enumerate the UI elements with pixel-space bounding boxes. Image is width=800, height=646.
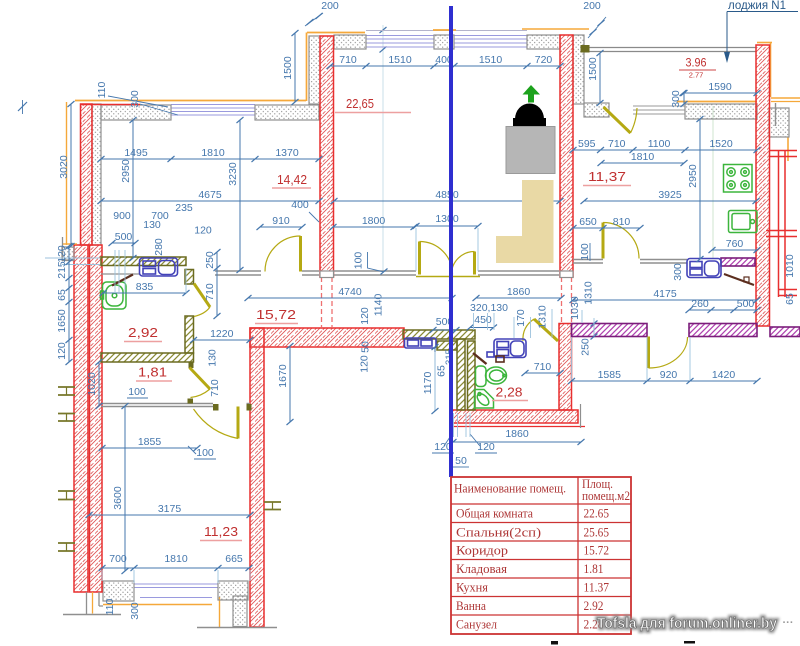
wall top-left red cap: [81, 104, 141, 106]
wc door triangle: [473, 353, 487, 364]
window W4 line low: [140, 597, 212, 599]
svg-text:11,37: 11,37: [588, 169, 626, 184]
partition corridor-top-b 215: [215, 274, 261, 276]
washing machine bath: [140, 258, 178, 276]
left pier step outline: [63, 237, 75, 261]
sink kitchen: [729, 211, 758, 233]
dim 250 balcony: [591, 321, 598, 340]
underline 120 wc1: [432, 452, 454, 454]
orange contour bottom window: [103, 604, 212, 606]
dim 835: [100, 281, 190, 296]
leader 120 wc1: [444, 434, 452, 446]
balcony comb v2: [784, 150, 786, 297]
beige column: [522, 180, 554, 237]
svg-text:710: 710: [534, 361, 552, 373]
svg-text:1495: 1495: [124, 147, 148, 159]
svg-text:215: 215: [56, 261, 68, 279]
svg-text:120: 120: [359, 307, 371, 325]
dim 3020: [58, 101, 75, 249]
insulation left wall strip: [92, 104, 101, 245]
axis line B: [712, 106, 714, 259]
closet door jamb R: [247, 404, 252, 411]
room label 15.72: [255, 307, 298, 324]
svg-text:665: 665: [225, 553, 243, 565]
svg-text:лоджия N1: лоджия N1: [728, 0, 786, 12]
svg-text:100: 100: [128, 386, 146, 398]
partition corridor-top 478: [478, 270, 559, 272]
ext line left a: [45, 257, 101, 259]
svg-text:1520: 1520: [709, 138, 733, 150]
room label 11.37: [583, 169, 631, 186]
svg-text:910: 910: [272, 215, 290, 227]
svg-text:1020: 1020: [86, 372, 98, 396]
extension line 530.5-317: [530, 317, 532, 338]
leader 200 right: [588, 17, 606, 38]
extension line 250-570: [249, 570, 251, 581]
dim 1855: [99, 436, 201, 451]
orange contour top-right vertical: [770, 43, 772, 98]
svg-text:2.77: 2.77: [689, 71, 704, 80]
insulation right outer block: [769, 108, 789, 137]
svg-text:помещ.м2: помещ.м2: [582, 488, 630, 503]
insulation bedroom pier L: [334, 35, 366, 49]
window W3 line 1: [454, 38, 527, 40]
right step gray: [775, 103, 777, 126]
partition closet 101: [101, 403, 213, 405]
window W1 line 3: [171, 114, 255, 116]
extension line 119-250: [118, 250, 120, 292]
extension line 478-228: [477, 228, 479, 271]
orange contour top-right corner h: [757, 42, 772, 44]
balcony comb rib a: [766, 230, 797, 232]
door double left leaf: [420, 242, 453, 275]
svg-text:300: 300: [129, 602, 141, 620]
dim 300 kitchen gap: [681, 90, 688, 107]
wall wc right: [559, 324, 572, 411]
threshold double door: [416, 276, 480, 278]
svg-text:900: 900: [113, 210, 131, 222]
dashed opening left b: [331, 277, 333, 327]
partition corridor-top 215: [215, 270, 261, 272]
extension line 571.5-337: [571, 337, 573, 380]
dim 2950 right: [687, 116, 704, 262]
partition corridor-top 302: [302, 270, 319, 272]
svg-text:320,130: 320,130: [470, 302, 508, 314]
door room 14.42: [265, 236, 301, 272]
extension line 473.5-313: [473, 313, 475, 330]
window W3 line 3: [454, 46, 527, 48]
extension line 466-413: [465, 413, 467, 437]
dim row kitchen top: [570, 138, 761, 153]
dim 250 710 bath: [204, 249, 221, 319]
ibeam left 4: [58, 543, 75, 551]
underline 100 closet: [127, 397, 148, 399]
svg-text:Спальня(2сп): Спальня(2сп): [456, 525, 541, 540]
dim 710 wc: [522, 361, 564, 376]
extension line 435-352: [434, 352, 436, 410]
svg-text:710: 710: [339, 54, 357, 66]
svg-text:810: 810: [613, 216, 631, 228]
leader 400: [309, 212, 319, 222]
svg-text:11,23: 11,23: [204, 524, 238, 539]
closet side door jamb B: [188, 399, 194, 404]
stove kitchen: [724, 165, 753, 193]
svg-text:4675: 4675: [198, 189, 222, 201]
washer and sink wc: [487, 339, 526, 358]
insulation bottom window R leg: [233, 596, 247, 627]
extension line 487.5-313: [487, 313, 489, 330]
svg-text:1585: 1585: [598, 369, 622, 381]
svg-text:400: 400: [291, 199, 309, 211]
svg-text:25.65: 25.65: [584, 525, 610, 540]
svg-text:3925: 3925: [658, 189, 682, 201]
dim 500 wc: [430, 316, 460, 333]
partition kitchen-b 573: [573, 262, 603, 264]
door kitchen entry: [603, 223, 639, 259]
balcony comb bottom b: [778, 295, 797, 297]
window W2 line 2: [366, 42, 434, 44]
insulation top-left B: [255, 105, 319, 120]
svg-text:1860: 1860: [505, 428, 529, 440]
partition closet 246.5: [247, 403, 251, 405]
svg-text:170: 170: [515, 309, 527, 327]
svg-text:65: 65: [56, 289, 68, 301]
extension line 416-228: [415, 228, 417, 271]
insulation top-left A: [101, 105, 171, 120]
svg-text:120: 120: [194, 225, 212, 237]
insulation bottom window R: [218, 581, 248, 600]
dim 3925: [581, 189, 760, 204]
svg-text:Коридор: Коридор: [456, 543, 508, 558]
wc small brown box: [496, 356, 504, 362]
partition kitchen 640: [640, 259, 687, 261]
extension line 218-570: [217, 570, 219, 583]
pier cap left: [320, 271, 334, 278]
window W5 kitchen line 0: [633, 105, 685, 107]
toilet wc: [476, 366, 507, 387]
loggia label: [724, 0, 798, 63]
svg-text:3020: 3020: [58, 155, 70, 179]
svg-text:250: 250: [580, 338, 592, 356]
dim 1170: [422, 344, 439, 414]
svg-text:2950: 2950: [687, 164, 699, 188]
wall left lower outer: [74, 245, 88, 592]
watermark text: [597, 616, 794, 632]
svg-text:710: 710: [204, 283, 216, 301]
ext line left b: [62, 264, 101, 266]
window W1 line 2: [171, 111, 255, 113]
window W2 line 0: [366, 35, 434, 37]
dim 1020: [86, 359, 103, 409]
washer pair wc niche: [405, 338, 437, 348]
wall left lower inner: [90, 245, 103, 592]
svg-text:50: 50: [455, 455, 467, 467]
svg-text:14,42: 14,42: [277, 172, 307, 187]
svg-text:1650: 1650: [56, 309, 68, 333]
dim left stack: [56, 243, 73, 365]
black dome: [515, 104, 544, 120]
svg-text:1590: 1590: [708, 81, 732, 93]
wall divider 14-22: [320, 36, 334, 277]
bottom-left step: [87, 592, 104, 614]
svg-text:120: 120: [56, 342, 68, 360]
purple partition bedroom R: [689, 324, 757, 337]
dim 260 500: [686, 298, 761, 313]
svg-text:710: 710: [209, 379, 221, 397]
svg-text:200: 200: [583, 0, 601, 12]
svg-text:1510: 1510: [479, 54, 503, 66]
extension line 514-317: [513, 317, 515, 338]
dim 1810 kitchen: [598, 151, 688, 166]
svg-text:1500: 1500: [282, 56, 294, 80]
black dash 2: [684, 641, 695, 644]
door double right leaf: [452, 252, 475, 275]
svg-text:1010: 1010: [784, 254, 796, 278]
svg-text:22.65: 22.65: [584, 506, 610, 521]
dim 3175: [86, 503, 254, 518]
balcony comb rib b: [766, 236, 797, 238]
dim 760: [709, 238, 761, 253]
room label 2.77: [679, 70, 716, 80]
washing machine kitchen: [687, 259, 721, 278]
dim row 14.42 top: [98, 147, 323, 162]
partition kitchen 573: [573, 259, 603, 261]
partition closet-b 101: [101, 406, 213, 408]
wc corner band: [437, 341, 457, 350]
dim 500 bath: [109, 231, 139, 246]
wall kitchen right: [756, 45, 770, 326]
purple partition bedroom L: [572, 324, 648, 337]
cupboard door bath: [112, 275, 133, 286]
insulation left pier: [62, 247, 74, 260]
window W4 line 0: [134, 583, 218, 585]
balcony glazing line 1: [589, 47, 756, 49]
beige foot: [496, 236, 554, 263]
window W4 line 1: [134, 587, 218, 589]
green arrow: [523, 85, 541, 103]
ibeam left 3: [58, 491, 75, 500]
svg-text:1810: 1810: [201, 147, 225, 159]
svg-text:110: 110: [104, 598, 116, 615]
window W2 line 3: [366, 46, 434, 48]
extension line 582-310: [581, 310, 583, 323]
wall corridor left vertical: [250, 328, 264, 627]
svg-text:500: 500: [115, 231, 133, 243]
corner tick top-left: [18, 102, 27, 111]
dim 1800: [330, 215, 418, 230]
window W2 line 1: [366, 38, 434, 40]
svg-text:130: 130: [207, 349, 219, 367]
svg-text:Кухня: Кухня: [456, 580, 488, 595]
orange contour top-left horizontal: [75, 100, 306, 102]
wall bedroom-kitchen: [560, 35, 573, 277]
extension line 457.5-413: [457, 413, 459, 437]
orange contour right step h2: [771, 101, 800, 103]
orange contour left wall outer: [66, 102, 68, 245]
underline 50 wc: [453, 466, 469, 468]
svg-text:1860: 1860: [507, 286, 531, 298]
svg-text:2.92: 2.92: [584, 598, 604, 613]
leader 120 wc2: [470, 434, 480, 446]
ibeam right 1: [264, 502, 281, 510]
window W3 line 2: [454, 42, 527, 44]
pier cap right: [560, 271, 573, 278]
gray box: [506, 127, 555, 174]
wall corridor bottom band: [250, 328, 404, 347]
wc vertical wall B: [468, 341, 476, 410]
svg-text:2,28: 2,28: [496, 385, 523, 400]
window W1 line 1: [171, 107, 255, 109]
extension line 102-570: [101, 570, 103, 581]
svg-text:1100: 1100: [648, 138, 671, 150]
door bath: [194, 284, 210, 317]
window W3 line 0: [454, 35, 527, 37]
svg-text:100: 100: [196, 447, 214, 459]
bath right wall lower: [185, 316, 194, 353]
dim row balcony doors: [568, 369, 761, 384]
underline 120 wc2: [475, 452, 497, 454]
axis line A: [382, 25, 384, 272]
svg-text:120: 120: [359, 355, 371, 373]
black bar: [513, 118, 546, 128]
svg-text:450: 450: [474, 314, 492, 326]
bath inner line: [101, 273, 140, 275]
orange contour bedroom right: [522, 28, 589, 30]
corner sink wc: [475, 390, 494, 409]
dim 3230: [227, 117, 244, 273]
bath bottom wall: [101, 353, 194, 362]
dim 450 wc: [467, 325, 498, 331]
extension line 453.5-413: [453, 413, 455, 437]
insulation kitchen balcony L: [584, 103, 609, 117]
bath top wall: [101, 257, 186, 266]
svg-text:1170: 1170: [422, 372, 434, 395]
svg-text:4740: 4740: [338, 286, 362, 298]
dim 3600: [112, 403, 129, 574]
svg-text:100: 100: [579, 243, 591, 261]
svg-text:500: 500: [737, 298, 755, 310]
svg-text:235: 235: [175, 202, 193, 214]
extension line 125-250: [124, 250, 126, 292]
svg-text:3175: 3175: [158, 503, 182, 515]
extension line 690-337: [689, 337, 691, 380]
svg-text:1800: 1800: [362, 215, 386, 227]
area table: [451, 476, 631, 634]
svg-text:3230: 3230: [227, 162, 239, 186]
svg-text:1300: 1300: [435, 213, 459, 225]
svg-text:1370: 1370: [275, 147, 299, 159]
insulation divider strip R: [573, 35, 584, 104]
extension line 552-309: [551, 309, 553, 338]
svg-text:65: 65: [784, 293, 796, 305]
dim row kitchen door: [570, 216, 644, 231]
svg-text:Наименование помещ.: Наименование помещ.: [454, 481, 566, 496]
dim 1500 left: [282, 30, 299, 105]
extension line 470-413: [469, 413, 471, 437]
svg-text:720: 720: [535, 54, 553, 66]
door wc: [523, 319, 558, 341]
partition corridor-top-b 302: [302, 274, 319, 276]
orange contour right lower v: [787, 137, 789, 161]
extension line 186-268: [185, 268, 187, 293]
svg-text:920: 920: [660, 369, 678, 381]
svg-text:1310: 1310: [583, 281, 595, 305]
svg-text:3600: 3600: [112, 486, 124, 510]
svg-text:1.81: 1.81: [584, 561, 604, 576]
insulation kitchen balcony R: [685, 104, 757, 119]
wall wc bottom band: [452, 410, 578, 423]
svg-text:1030: 1030: [569, 296, 581, 320]
orange contour center pier: [433, 29, 456, 31]
window W5 kitchen line 2: [633, 113, 685, 115]
svg-text:200: 200: [321, 0, 339, 12]
svg-text:Кладовая: Кладовая: [456, 561, 507, 576]
svg-text:710: 710: [608, 138, 626, 150]
svg-text:1310: 1310: [537, 305, 549, 329]
black dash 1: [551, 641, 558, 645]
underline 100 bottom room: [194, 458, 216, 460]
svg-text:1810: 1810: [164, 553, 188, 565]
dim 910: [257, 215, 306, 230]
ibeam left 1: [58, 387, 75, 395]
window W1 line 0: [171, 104, 255, 106]
insulation bedroom pier C: [434, 35, 454, 49]
svg-text:1,81: 1,81: [138, 365, 167, 380]
wc side gray right: [580, 404, 582, 428]
dim 1590: [680, 81, 761, 96]
wall left upper: [81, 104, 93, 245]
room label 2.92: [124, 325, 162, 342]
svg-text:260: 260: [691, 298, 709, 310]
wc side gray left: [451, 404, 453, 428]
svg-text:700: 700: [109, 553, 127, 565]
dim 4850: [331, 189, 564, 204]
svg-text:1670: 1670: [277, 364, 289, 388]
svg-text:120: 120: [477, 441, 495, 453]
dim row bedroom top: [327, 54, 564, 69]
dim 4675: [98, 189, 323, 204]
room label 11.23: [200, 524, 242, 541]
svg-text:···: ···: [783, 617, 794, 629]
closet door jamb L: [213, 404, 219, 411]
balcony edge line above windows: [366, 30, 527, 32]
svg-text:2950: 2950: [120, 159, 132, 183]
bath right jamb upper: [185, 270, 194, 285]
wc top band: [403, 330, 475, 339]
svg-text:Ванна: Ванна: [456, 598, 486, 613]
svg-text:300: 300: [129, 90, 141, 108]
leader 200 left: [305, 13, 323, 26]
dark square column marker: [581, 45, 590, 53]
room label 3.96: [686, 58, 707, 70]
balcony comb cap top a: [770, 150, 797, 152]
svg-text:100: 100: [353, 252, 365, 270]
insulation divider strip L: [309, 36, 320, 104]
wardrobe door kitchen: [724, 274, 754, 285]
svg-text:Санузел: Санузел: [456, 617, 497, 632]
blue section line: [449, 6, 453, 477]
leader 100 bedroom: [368, 252, 385, 272]
svg-text:2,92: 2,92: [128, 325, 158, 340]
svg-text:15,72: 15,72: [256, 307, 296, 322]
balcony glazing line 2: [589, 51, 756, 53]
dim 1500 right: [587, 50, 604, 106]
svg-text:280: 280: [153, 238, 165, 256]
door closet: [194, 407, 239, 439]
room label 22.65: [335, 96, 411, 113]
ibeam left 2: [58, 414, 75, 422]
axis A ticks: [380, 27, 387, 33]
